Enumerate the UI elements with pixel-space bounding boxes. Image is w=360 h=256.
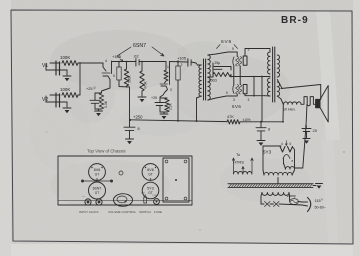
ground 8uF main bbox=[257, 141, 265, 146]
ground 8uF preamp bbox=[126, 139, 134, 144]
toggle switch (panel) bbox=[141, 193, 147, 204]
ground cathode U1B bbox=[160, 112, 168, 119]
ground cathode U1A bbox=[95, 109, 103, 116]
switch S1 power bbox=[261, 202, 302, 207]
capacitor 25uF cathode bypass U1B bbox=[151, 96, 164, 112]
volume knob bbox=[114, 194, 133, 207]
transformer T2 center tap wire bbox=[262, 76, 270, 78]
plug 115V AC bbox=[302, 197, 326, 211]
tube socket 6V6 GT right bbox=[142, 164, 159, 181]
capacitor coupling to T1 bbox=[188, 59, 198, 67]
tube label 6SN7 with arrows bbox=[117, 43, 164, 58]
capacitor 25uF bias (parallel RC) bbox=[213, 61, 231, 70]
ground 470K bbox=[138, 97, 146, 102]
chassis drawing title bbox=[87, 149, 126, 154]
wire input to grid of U1A bbox=[103, 63, 106, 71]
resistor grid stopper U1B bbox=[164, 62, 169, 82]
wire rectifier output to filter bbox=[295, 167, 303, 169]
transformer T1 secondary bbox=[208, 52, 237, 100]
label +105 plate U1A bbox=[112, 54, 123, 61]
wire plate bus U1A bbox=[112, 61, 136, 63]
triode U1A (6SN7 first half) bbox=[102, 59, 115, 86]
transformer T3 core bbox=[228, 184, 313, 188]
panel jacks bbox=[82, 195, 102, 205]
transformer T2 secondary upper bbox=[277, 55, 279, 77]
wire cathode U1A bbox=[102, 86, 111, 93]
grommet hole bbox=[119, 171, 123, 175]
label switch fuse bbox=[139, 210, 162, 214]
resistor 47K dropping bbox=[227, 115, 283, 124]
resistor 100K (input V2) bbox=[60, 87, 80, 97]
triode U1B (6SN7 second half) bbox=[160, 62, 172, 93]
tube label 6V6 (top) bbox=[217, 39, 238, 49]
tube label 6V6 (bottom) bbox=[232, 104, 241, 109]
resistor 100K (input V1) bbox=[60, 55, 103, 65]
capacitor 25uF cathode bypass U1A bbox=[86, 85, 102, 109]
resistor 3.3K cathode U1A bbox=[95, 93, 108, 109]
label +105 plate U1B bbox=[177, 55, 187, 61]
capacitor 20uF filter bbox=[302, 126, 318, 138]
ground jack V1 bbox=[63, 76, 71, 81]
wire jack junction to grid bus bbox=[79, 62, 81, 95]
power transformer (chassis) bbox=[163, 158, 189, 202]
tube socket 6V6 GT left bbox=[89, 164, 106, 181]
wire plate bus U1B bbox=[170, 61, 189, 63]
transformer T1 core bbox=[204, 59, 206, 100]
resistor plate load U1B (box) bbox=[176, 62, 183, 121]
label volume control bbox=[108, 210, 137, 214]
wire B+ rail +250 bbox=[129, 115, 227, 122]
transformer T3 HV secondary bbox=[263, 170, 295, 184]
rectifier V4 5Y3 bbox=[263, 141, 295, 171]
transformer T2 core bbox=[273, 47, 275, 102]
capacitor 8uF filter (preamp) bbox=[124, 120, 140, 139]
tube V2 6V6 upper bbox=[232, 47, 250, 77]
mounting bracket bbox=[81, 180, 113, 183]
transformer T2 output primary lower half bbox=[265, 78, 270, 96]
chassis outline bbox=[58, 156, 192, 205]
potentiometer 500K volume bbox=[124, 62, 131, 88]
wire T2 secondary to speaker bbox=[281, 85, 321, 100]
input jack V1 bbox=[42, 61, 67, 75]
wire choke to rectifier node bbox=[303, 104, 307, 168]
wire choke to B+ rail bbox=[282, 104, 284, 122]
wire plate V2 to T2 bbox=[245, 49, 270, 57]
transformer T3 primary bbox=[261, 193, 290, 205]
tube V3 6V6 lower bbox=[226, 77, 250, 103]
wire cathode U1B bbox=[160, 92, 165, 98]
resistor 470K grid leak U1B bbox=[140, 61, 148, 96]
title BR-9 bbox=[281, 15, 309, 26]
field coil choke 10 Hen bbox=[283, 102, 301, 112]
wire plate V3 to T2 bbox=[245, 94, 265, 97]
ground T3 core bbox=[313, 184, 323, 189]
tube socket 5Y3 GT bbox=[142, 182, 159, 199]
fuse holder (panel) bbox=[153, 195, 160, 204]
wire cathode bus 6V6s and T2 center tap bbox=[231, 76, 267, 122]
ground jack V2 bbox=[63, 108, 71, 113]
ground 20uF bbox=[303, 139, 310, 144]
label input jacks bbox=[79, 210, 98, 214]
voice coil bbox=[301, 97, 316, 106]
capacitor .02 coupling bbox=[133, 54, 166, 66]
speaker LS1 bbox=[316, 86, 329, 123]
transformer T3 heater winding bbox=[232, 152, 253, 174]
resistor 2.2K cathode U1B bbox=[160, 98, 172, 112]
capacitor 8uF filter (main) bbox=[256, 122, 270, 140]
tube socket 6SN7 GT bbox=[89, 182, 106, 199]
transformer T2 secondary lower bbox=[277, 80, 283, 105]
transformer T1 interstage primary bbox=[197, 65, 202, 122]
transformer T2 output primary upper half bbox=[268, 52, 270, 74]
transformer T3 5V winding bbox=[284, 163, 295, 169]
resistor plate load U1A (box) bbox=[117, 62, 121, 85]
input jack V2 bbox=[42, 93, 67, 107]
wire to +250 rail bbox=[119, 85, 130, 120]
fuse F1 2amp bbox=[287, 194, 302, 204]
resistor 250 ohm bias bbox=[209, 63, 232, 83]
